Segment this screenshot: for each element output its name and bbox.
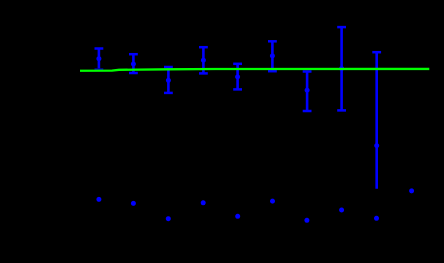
lower series dot 9 [374,216,379,221]
error bar point 7 (x=307) [303,72,312,112]
lower series dot 7 [304,218,309,223]
lower series dot 6 [270,199,275,204]
green fit line [80,69,429,71]
lower series dot 1 [96,197,101,202]
error bar point 4 (x=203) [199,47,208,73]
error bar point 2 (x=133) [129,54,138,73]
lower series dot 4 [201,200,206,205]
lower series dot 3 [166,216,171,221]
error bar point 8 (x=342) [337,27,346,110]
lower series dot 10 [409,188,414,193]
lower series dot 2 [131,201,136,206]
error bar point 5 (x=238) [233,64,242,90]
lower series dot 8 [339,208,344,213]
error bar point 1 (x=99) [95,49,104,70]
error bar point 6 (x=272) [268,41,277,71]
lower series dot 5 [235,214,240,219]
error bar point 3 (x=168) [164,67,173,93]
error bar point 9 (x=377, long, clipped lower end without cap) [372,52,381,189]
